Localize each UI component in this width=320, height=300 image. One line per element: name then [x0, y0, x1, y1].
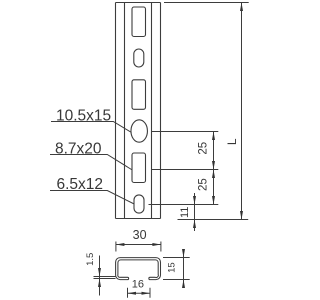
- dim 16 line: [128, 292, 151, 294]
- dimension line 25+25: [213, 132, 215, 205]
- extension line at rail top: [164, 2, 249, 4]
- slot hole 8.7x20 (top): [132, 7, 146, 37]
- svg-text:10.5x15: 10.5x15: [56, 107, 111, 124]
- dim 30 extension right: [160, 242, 162, 252]
- dim 15 line: [183, 250, 185, 286]
- extension line at bottom oval center: [149, 204, 219, 206]
- svg-text:15: 15: [167, 262, 178, 273]
- dim 1.5 extension lower: [94, 278, 116, 280]
- arrow 30 right: [152, 243, 161, 246]
- rail front view: right outer edge: [160, 3, 162, 219]
- slot hole 8.7x20 (third): [132, 153, 146, 183]
- arrow 11 top (down, outside): [193, 196, 196, 205]
- dim 15 extension bottom: [163, 279, 190, 281]
- svg-text:1.5: 1.5: [85, 253, 96, 266]
- rail front view: bottom end line: [116, 218, 161, 220]
- svg-text:25: 25: [198, 142, 210, 155]
- dimension line L: [241, 3, 243, 220]
- svg-text:8.7x20: 8.7x20: [55, 140, 102, 157]
- label 6.5x12 underline and leader: [50, 191, 134, 205]
- rail front view: right lip fold line: [151, 3, 153, 219]
- rail front view: left outer edge: [115, 3, 117, 219]
- arrow 11 bottom (up, outside): [193, 220, 196, 229]
- svg-text:6.5x12: 6.5x12: [57, 176, 104, 193]
- svg-text:30: 30: [133, 228, 147, 242]
- arrow 15 bottom (up, outside): [182, 280, 185, 289]
- svg-text:L: L: [225, 138, 239, 145]
- arrow 30 left: [116, 243, 125, 246]
- dim 1.5 line: [99, 256, 101, 296]
- dim 16 extension left: [127, 288, 129, 298]
- arrow 25 mid lower (up): [212, 170, 215, 179]
- arrow 16 left: [128, 292, 137, 295]
- dim 30 extension left: [115, 242, 117, 252]
- arrow 1.5 bottom (up, outside): [98, 279, 101, 288]
- svg-text:25: 25: [198, 178, 210, 191]
- label 10.5x15 underline and leader: [51, 122, 132, 133]
- dim 1.5 extension upper: [94, 276, 116, 278]
- arrow 16 right: [142, 292, 151, 295]
- slot hole 8.7x20 (second): [132, 80, 146, 110]
- svg-text:11: 11: [179, 207, 191, 218]
- arrow 15 top (down, outside): [182, 249, 185, 258]
- rail front view: top end line: [116, 2, 161, 4]
- dim 16 extension right: [149, 288, 151, 298]
- arrow 25 top (up): [212, 132, 215, 141]
- cross-section C-profile outline: [116, 258, 161, 280]
- svg-text:16: 16: [132, 278, 144, 290]
- dim 15 extension top: [163, 257, 190, 259]
- label 8.7x20 underline and leader: [50, 155, 132, 171]
- oval hole 10.5x15 (ellipse): [131, 120, 148, 142]
- arrow L bottom (down): [240, 211, 243, 220]
- dimension line 11: [194, 193, 196, 231]
- extension line at rail bottom: [178, 219, 249, 221]
- oval hole 6.5x12 (upper): [134, 49, 144, 67]
- arrow 25 bottom (down): [212, 196, 215, 205]
- oval hole 6.5x12 (bottom): [134, 195, 144, 213]
- extension line at third slot center: [151, 169, 218, 171]
- arrow 1.5 top (down, outside): [98, 268, 101, 277]
- arrow L top (up): [240, 3, 243, 12]
- rail front view: left lip fold line: [124, 3, 126, 219]
- arrow 25 mid upper (down): [212, 161, 215, 170]
- dim 30 line: [116, 244, 161, 246]
- extension line at big oval center: [151, 131, 218, 133]
